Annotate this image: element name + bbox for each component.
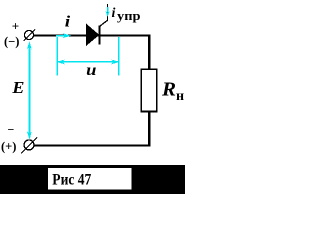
svg-text:(−): (−): [4, 35, 19, 49]
wire right vertical lower: [148, 112, 150, 147]
label i_upr (control current): [112, 6, 141, 23]
wire top horizontal: [33, 35, 150, 37]
current arrow i (cyan, right) on top wire: [56, 33, 71, 38]
thyristor VS anode triangle: [86, 24, 99, 45]
resistor R_n (load): [141, 69, 156, 111]
wire bottom horizontal: [34, 145, 151, 147]
thyristor cathode bar: [99, 25, 101, 44]
label R_n: [161, 79, 184, 104]
terminal bottom (circle with slash): [21, 138, 37, 154]
caption black strip: [0, 165, 185, 194]
svg-text:R: R: [161, 79, 176, 101]
svg-text:+: +: [12, 19, 19, 34]
svg-text:Рис 47: Рис 47: [52, 172, 91, 189]
svg-text:упр: упр: [117, 9, 141, 23]
svg-text:н: н: [176, 89, 184, 104]
svg-text:u: u: [86, 62, 96, 79]
caption white box: [48, 168, 132, 190]
svg-text:−: −: [8, 123, 15, 137]
svg-text:(+): (+): [1, 140, 16, 154]
gate control current arrow (cyan, down): [106, 7, 110, 17]
terminal top (circle with slash): [24, 30, 36, 42]
u dimension right extension line (cyan): [118, 37, 120, 75]
thyristor gate lead: [100, 4, 108, 26]
u dimension double arrow (cyan): [57, 60, 120, 65]
EMF arrow E (cyan, double headed vertical): [27, 41, 32, 139]
wire right vertical upper: [148, 35, 150, 70]
u dimension left extension line (cyan): [56, 37, 58, 75]
svg-text:i: i: [112, 6, 116, 21]
svg-text:E: E: [11, 78, 24, 97]
svg-text:i: i: [65, 13, 71, 30]
